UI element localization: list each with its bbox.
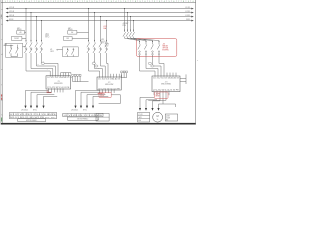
svg-text:7: 7 — [178, 1, 179, 3]
svg-text:e: e — [197, 60, 198, 62]
cable arrows W3 — [139, 108, 160, 111]
svg-text:-W2 4G2,5: -W2 4G2,5 — [71, 109, 78, 111]
svg-text:SIRIUS 3RW: SIRIUS 3RW — [54, 83, 63, 85]
left border red cable dashes — [1, 94, 3, 99]
svg-text:PE: PE — [97, 119, 99, 121]
svg-text:4: 4 — [164, 1, 165, 3]
svg-text:4: 4 — [19, 1, 20, 3]
svg-text:N/1.8: N/1.8 — [9, 19, 13, 21]
red PE note X2 — [99, 92, 121, 103]
svg-text:6: 6 — [125, 1, 126, 3]
svg-text:9: 9 — [91, 1, 92, 3]
top ruler column numbers — [5, 1, 194, 3]
svg-text:5: 5 — [120, 1, 121, 3]
relay box B1 — [11, 37, 26, 41]
svg-text:4: 4 — [67, 1, 68, 3]
svg-text:13/22: 13/22 — [105, 45, 109, 47]
svg-text:-X3:PE: -X3:PE — [155, 93, 160, 95]
svg-text:7: 7 — [34, 1, 35, 3]
T3 bottom pins — [154, 92, 169, 96]
svg-text:1: 1 — [53, 1, 54, 3]
svg-text:-F12: -F12 — [103, 26, 107, 28]
wire G2 phase 2 drop — [94, 12, 102, 77]
svg-text:GNYE: GNYE — [100, 96, 104, 98]
svg-text:9: 9 — [140, 1, 141, 3]
svg-text:11-14: 11-14 — [122, 25, 126, 27]
relay box A1 — [17, 31, 26, 35]
svg-text:MOTOR FEED 1: MOTOR FEED 1 — [26, 120, 37, 122]
svg-text:7: 7 — [130, 1, 131, 3]
wire tags G2 — [92, 62, 98, 67]
svg-text:3: 3 — [63, 1, 64, 3]
svg-text:NYY-J: NYY-J — [45, 37, 49, 39]
T1 bottom pins — [49, 89, 64, 92]
svg-text:a: a — [1, 9, 2, 11]
svg-text:3RV20: 3RV20 — [68, 29, 73, 31]
label K1 — [50, 49, 54, 53]
cable wires to motor 2 — [76, 90, 109, 106]
svg-text:U1 V1 W1 PE 1 2 3 4 5 6 GNYE: U1 V1 W1 PE 1 2 3 4 5 6 GNYE — [10, 114, 56, 116]
svg-text:L1/3.1: L1/3.1 — [185, 7, 190, 9]
svg-text:6: 6 — [29, 1, 30, 3]
svg-text:0: 0 — [96, 1, 97, 3]
svg-text:1: 1 — [149, 1, 150, 3]
wire G2 phase 3 drop — [100, 16, 105, 77]
wire G3 phase 3 tap — [130, 16, 131, 32]
cable W2 text — [71, 109, 87, 111]
svg-text:2T1 4T2 6T3 14 24 PE: 2T1 4T2 6T3 14 24 PE — [47, 87, 69, 89]
svg-text:GNYE: GNYE — [155, 95, 159, 97]
terminal box 2c — [96, 113, 109, 121]
bus L3 — [6, 15, 194, 18]
border left double line — [1, 0, 3, 125]
svg-text:b: b — [1, 24, 2, 26]
T3 right stubs — [180, 74, 186, 84]
wire G3 phase 4 drop — [159, 57, 164, 76]
disconnect switch S2 — [63, 47, 79, 57]
svg-text:NYY-J: NYY-J — [83, 109, 87, 111]
svg-text:=CAB: =CAB — [0, 14, 3, 20]
svg-text:9: 9 — [43, 1, 44, 3]
T1 PE red mark — [47, 91, 52, 93]
svg-text:SIRIUS 3RW: SIRIUS 3RW — [105, 84, 114, 86]
left border green mark — [1, 118, 3, 122]
motor M3 — [153, 112, 163, 122]
terminal strip X1 — [71, 74, 89, 81]
svg-text:3RV20: 3RV20 — [17, 29, 22, 31]
svg-text:8: 8 — [135, 1, 136, 3]
border top ruler line — [1, 1, 196, 3]
wire G3 phase 1 tap — [124, 8, 125, 32]
svg-text:4G4: 4G4 — [138, 120, 141, 122]
svg-text:5: 5 — [169, 1, 170, 3]
T1 aux top pins — [61, 73, 69, 76]
svg-text:-X2: -X2 — [97, 115, 99, 117]
svg-text:2: 2 — [9, 1, 10, 3]
svg-text:1: 1 — [5, 1, 6, 3]
svg-text:c: c — [1, 39, 2, 41]
svg-text:2: 2 — [106, 1, 107, 3]
cable arrows W1 — [24, 106, 44, 109]
T2 bottom pins — [100, 90, 115, 93]
label Q1 motor starter — [17, 27, 22, 31]
circuit breaker Q1 poles — [24, 40, 42, 47]
label Q3 — [122, 23, 128, 27]
red highlight box option — [136, 39, 176, 57]
T1 aux feed wires — [61, 73, 71, 75]
cable W2 wire — [57, 49, 63, 50]
svg-text:9: 9 — [188, 1, 189, 3]
wire G1 phase 1 drop — [25, 8, 50, 76]
contactor K2 poles — [87, 48, 108, 53]
svg-text:-T3: -T3 — [165, 82, 168, 84]
svg-text:d: d — [1, 54, 2, 56]
svg-text:L3/3.1: L3/3.1 — [185, 15, 190, 17]
wire G2 phase 4 drop — [106, 20, 108, 77]
cable wires to motor 1 — [26, 90, 58, 106]
svg-text:7,5kW: 7,5kW — [166, 117, 171, 119]
cable arrows W2 — [74, 106, 94, 109]
svg-text:8: 8 — [183, 1, 184, 3]
left border location text — [0, 14, 3, 20]
label K2 — [105, 42, 110, 47]
svg-text:0: 0 — [144, 1, 145, 3]
svg-text:MOTOR FEED 2: MOTOR FEED 2 — [77, 118, 88, 120]
svg-text:4G1,5: 4G1,5 — [101, 41, 105, 43]
svg-text:-W31: -W31 — [138, 117, 142, 119]
svg-text:-T2: -T2 — [108, 82, 111, 84]
cable table 2a — [63, 113, 103, 116]
svg-text:3: 3 — [159, 1, 160, 3]
terminal strip X2 — [121, 71, 128, 78]
svg-text:-Q2: -Q2 — [68, 27, 71, 29]
T2 aux top pins — [111, 74, 119, 77]
circuit breaker Q3 poles — [123, 30, 135, 37]
svg-text:-W3: -W3 — [101, 39, 104, 41]
wire G3 jog 1 — [125, 37, 140, 45]
svg-text:NYY-J: NYY-J — [33, 109, 37, 111]
red option text — [162, 44, 168, 52]
label Q2 motor starter — [68, 27, 73, 31]
svg-text:SIRIUS 3RW40: SIRIUS 3RW40 — [161, 84, 171, 86]
svg-text:3: 3 — [111, 1, 112, 3]
svg-text:5: 5 — [24, 1, 25, 3]
soft starter T1 — [46, 76, 71, 89]
label W3 — [101, 39, 105, 44]
contactor K1 poles — [24, 48, 42, 53]
wire G3 jog 4 — [134, 37, 160, 45]
wire G3 jog 2 — [128, 37, 147, 45]
cable W2 label — [45, 33, 49, 38]
cable table 2b — [68, 117, 99, 120]
svg-text:3RT20: 3RT20 — [105, 44, 110, 46]
wire tags G3 — [148, 62, 154, 67]
bus N — [6, 19, 194, 22]
svg-text:L2/1.8: L2/1.8 — [9, 11, 14, 13]
right border row letter — [197, 60, 198, 62]
svg-text:4: 4 — [116, 1, 117, 3]
bus L2 — [6, 11, 194, 14]
red PE note X3 — [154, 92, 168, 98]
wire G2 phase 1 drop — [88, 8, 100, 77]
T3 aux top pins — [167, 73, 176, 76]
svg-text:-Q1: -Q1 — [17, 27, 20, 29]
svg-text:L1/1.8: L1/1.8 — [9, 7, 14, 9]
svg-text:L3/1.8: L3/1.8 — [9, 15, 14, 17]
svg-text:7: 7 — [82, 1, 83, 3]
soft starter T2 — [97, 77, 121, 90]
wire G1 phase 2 drop — [30, 12, 52, 76]
disconnect switch S1 — [6, 43, 26, 57]
cable W1 wire — [4, 44, 14, 46]
cable table 1 footer — [18, 119, 46, 122]
svg-text:3: 3 — [14, 1, 15, 3]
svg-text:-K1: -K1 — [50, 49, 53, 51]
wire G3 jog 3 — [131, 37, 153, 45]
bus L1 — [6, 7, 194, 10]
cable W1 text — [21, 109, 37, 111]
border bottom thick line — [1, 123, 196, 125]
plug connector XS3 poles — [138, 41, 160, 57]
cable table 1 — [9, 113, 57, 119]
relay box B2 — [63, 37, 88, 41]
svg-text:-X3: -X3 — [162, 44, 165, 46]
svg-text:-W1 4G2,5: -W1 4G2,5 — [21, 109, 28, 111]
top ruler ticks — [3, 0, 196, 2]
svg-text:13/22: 13/22 — [50, 51, 54, 53]
svg-text:3~: 3~ — [157, 119, 159, 121]
svg-text:2: 2 — [154, 1, 155, 3]
svg-text:OPTION: OPTION — [162, 48, 168, 50]
left border row letters — [1, 9, 2, 117]
svg-text:NYY: NYY — [101, 43, 104, 45]
svg-text:24V: 24V — [66, 38, 69, 40]
svg-text:-1M3: -1M3 — [166, 115, 170, 117]
svg-text:h: h — [1, 115, 2, 117]
svg-text:1: 1 — [101, 1, 102, 3]
cable wires to motor 3 — [140, 95, 176, 109]
svg-text:U V W: U V W — [138, 114, 143, 116]
svg-text:-Q3 3RV: -Q3 3RV — [122, 23, 128, 25]
svg-text:-X2:PE: -X2:PE — [100, 94, 105, 96]
svg-text:EXTERN: EXTERN — [162, 50, 168, 52]
svg-text:2T1 4T2 6T3 14 24 PE: 2T1 4T2 6T3 14 24 PE — [98, 88, 120, 90]
wire G1 phase 3 drop — [36, 16, 55, 76]
motor M3 label box — [165, 114, 177, 121]
wire G3 phase 2 drop — [146, 57, 158, 76]
svg-text:e: e — [1, 69, 2, 71]
relay box A2 — [68, 31, 89, 35]
wire G3 phase 3 drop — [153, 57, 162, 76]
svg-text:-K2: -K2 — [105, 42, 108, 44]
svg-text:2: 2 — [58, 1, 59, 3]
wire G3 phase 4 tap — [133, 20, 134, 32]
red note mid — [103, 26, 107, 30]
svg-text:-T1: -T1 — [57, 81, 60, 83]
wire numbers G2 — [93, 61, 99, 71]
sheet background — [0, 0, 200, 125]
svg-text:L2/3.1: L2/3.1 — [185, 11, 190, 13]
svg-text:M: M — [157, 114, 159, 118]
svg-text:6: 6 — [173, 1, 174, 3]
T2 PE red mark — [98, 93, 103, 95]
wire numbers G1 — [37, 61, 47, 72]
svg-text:0: 0 — [193, 1, 194, 3]
cable table 3 — [138, 112, 150, 122]
svg-text:8: 8 — [87, 1, 88, 3]
wire G3 phase 1 drop — [140, 57, 156, 76]
wire G3 phase 2 tap — [127, 12, 128, 32]
soft starter T3 — [152, 76, 180, 92]
svg-text:5: 5 — [72, 1, 73, 3]
svg-text:N/3.1: N/3.1 — [186, 19, 190, 21]
wire G1 phase 4 drop — [41, 20, 58, 76]
svg-text:6: 6 — [77, 1, 78, 3]
svg-text:8: 8 — [38, 1, 39, 3]
svg-text:0: 0 — [48, 1, 49, 3]
border right line — [195, 0, 197, 125]
wire tag G1 — [41, 62, 44, 64]
svg-text:IE3: IE3 — [166, 119, 168, 121]
circuit breaker Q2 poles — [87, 40, 108, 47]
